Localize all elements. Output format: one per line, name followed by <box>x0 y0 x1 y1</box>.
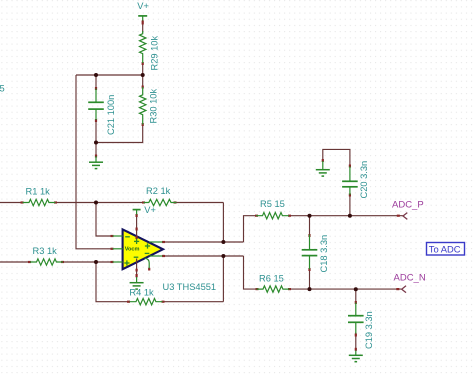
svg-text:V+: V+ <box>137 1 149 11</box>
svg-text:Vocm: Vocm <box>125 246 140 252</box>
svg-text:R5 15: R5 15 <box>260 199 285 209</box>
svg-text:5: 5 <box>0 84 5 94</box>
svg-text:V+: V+ <box>144 205 156 215</box>
svg-text:C21 100n: C21 100n <box>106 95 116 135</box>
svg-text:R1 1k: R1 1k <box>26 187 51 197</box>
svg-text:R3 1k: R3 1k <box>33 246 58 256</box>
svg-text:R2 1k: R2 1k <box>146 186 171 196</box>
svg-text:U3 THS4551: U3 THS4551 <box>163 282 217 292</box>
svg-text:C20 3.3n: C20 3.3n <box>359 161 369 199</box>
svg-text:ADC_N: ADC_N <box>394 272 426 283</box>
svg-text:To ADC: To ADC <box>429 243 461 254</box>
svg-text:R4 1k: R4 1k <box>129 288 154 298</box>
svg-text:C19 3.3n: C19 3.3n <box>364 311 374 349</box>
svg-text:R30 10k: R30 10k <box>149 89 159 124</box>
svg-text:R6 15: R6 15 <box>259 274 284 284</box>
svg-text:R29 10k: R29 10k <box>150 36 160 71</box>
svg-text:ADC_P: ADC_P <box>392 200 424 211</box>
svg-text:C18 3.3n: C18 3.3n <box>319 235 329 273</box>
